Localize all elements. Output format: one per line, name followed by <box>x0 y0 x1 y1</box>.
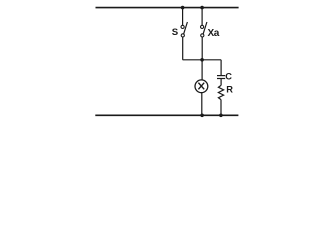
lamp X (indicator lamp) <box>195 80 208 93</box>
resistor R <box>218 85 223 99</box>
node junction dot bottom rail / RC branch <box>219 114 223 118</box>
svg-text:C: C <box>225 71 232 81</box>
wire bottom supply rail <box>95 114 238 116</box>
svg-text:Xa: Xa <box>208 28 220 39</box>
wire top supply rail <box>96 7 239 9</box>
switch S <box>181 22 187 37</box>
wire from switch Xa to junction node <box>201 37 203 60</box>
switch Xa (relay contact) <box>201 22 207 37</box>
svg-text:S: S <box>172 27 179 38</box>
wire from junction node to capacitor C <box>220 60 222 75</box>
svg-text:R: R <box>226 85 233 95</box>
wire from top rail to switch Xa <box>201 8 203 26</box>
wire from switch S to junction node <box>182 37 184 60</box>
node junction dot top rail / switch S branch <box>181 6 185 10</box>
wire from junction node to lamp <box>201 60 203 80</box>
wire from top rail to switch S <box>182 8 184 26</box>
wire from capacitor C to resistor R <box>220 79 222 85</box>
wire from lamp to bottom rail <box>201 93 203 116</box>
node junction dot bottom rail / lamp branch <box>200 114 204 118</box>
wire horizontal connector node between branches <box>183 59 222 61</box>
node junction dot top rail / switch Xa branch <box>200 6 204 10</box>
wire from resistor R to bottom rail <box>220 100 222 116</box>
node junction dot center <box>200 58 204 62</box>
capacitor C <box>217 76 225 79</box>
